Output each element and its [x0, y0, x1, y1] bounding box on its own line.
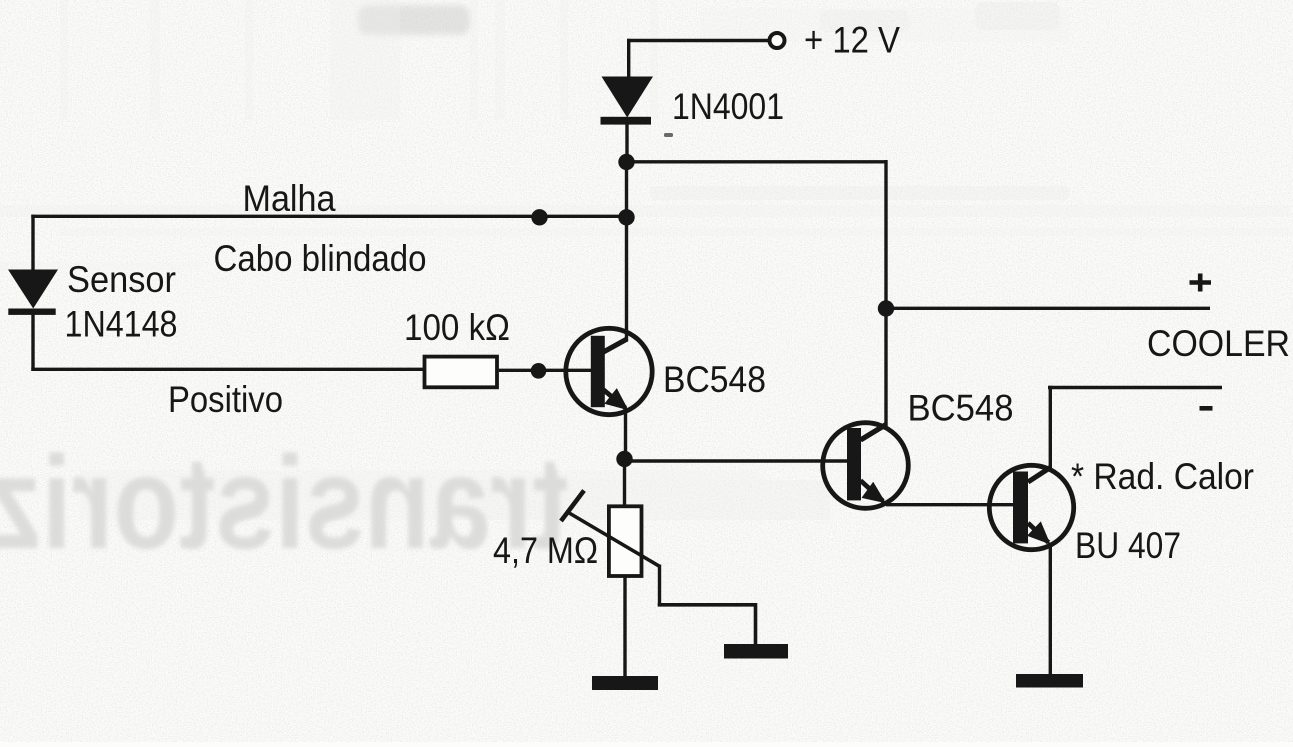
wire node A to shield node	[625, 162, 628, 217]
wire sensor anode (left drop)	[31, 215, 34, 271]
svg-text:1N4148: 1N4148	[65, 304, 178, 345]
svg-text:transistoriza: transistoriza	[0, 429, 568, 576]
trimpot P1 4,7M body	[609, 506, 642, 576]
svg-text:Positivo: Positivo	[168, 379, 283, 420]
svg-text:1N4001: 1N4001	[672, 86, 784, 127]
resistor R1 100k	[425, 357, 498, 388]
transistor Q2 BC548	[823, 423, 909, 509]
svg-text:COOLER: COOLER	[1147, 323, 1290, 364]
ground (Q3 emitter)	[1016, 674, 1083, 688]
svg-text:4,7 MΩ: 4,7 MΩ	[493, 530, 598, 571]
node B junction dot	[878, 300, 894, 316]
junction dot base Q1	[531, 363, 547, 379]
svg-text:BC548: BC548	[663, 359, 766, 400]
svg-text:+ 12 V: + 12 V	[804, 20, 900, 61]
diode D2 sensor 1N4148	[8, 270, 58, 315]
wire sensor cathode to positivo wire	[31, 315, 34, 372]
diode D1 1N4001	[601, 77, 654, 125]
trimpot wiper arrow	[561, 491, 660, 567]
label + (cooler positive)	[1190, 274, 1212, 292]
label - (cooler negative)	[1200, 406, 1213, 411]
wire Q3 emitter to ground	[1049, 545, 1052, 675]
wire positivo (center conductor)	[31, 368, 423, 371]
wire shield node down to Q1 collector	[625, 217, 628, 342]
ground (trimpot)	[592, 676, 658, 690]
wire Q1 emitter to node C	[624, 410, 627, 459]
wire D1 cathode to node A	[625, 124, 628, 162]
wire right rail down to node B	[884, 160, 887, 308]
transistor Q1 BC548	[566, 328, 652, 414]
wire malha (shield)	[31, 215, 626, 218]
svg-text:Sensor: Sensor	[67, 259, 176, 300]
svg-text:BC548: BC548	[908, 388, 1014, 429]
wire R1 to base node	[499, 369, 591, 372]
svg-text:100 kΩ: 100 kΩ	[404, 307, 510, 348]
+12V terminal	[770, 33, 785, 48]
wire Q2 emitter to Q3 base	[886, 503, 1014, 506]
svg-text:* Rad. Calor: * Rad. Calor	[1071, 456, 1254, 497]
transistor Q3 BU407	[989, 465, 1073, 549]
wire node A to right rail	[627, 160, 887, 163]
svg-text:Cabo blindado: Cabo blindado	[214, 238, 427, 279]
wire node C to Q2 base	[625, 459, 848, 462]
wire node B down to Q2 collector	[884, 308, 887, 426]
ground (wiper)	[724, 644, 788, 659]
junction dot shield right	[618, 209, 634, 225]
wire node C to trimpot	[623, 459, 626, 505]
svg-text:Malha: Malha	[243, 178, 336, 219]
wire +12V to diode D1	[627, 39, 770, 42]
wire trimpot wiper to ground	[658, 565, 756, 646]
junction dot shield left	[531, 209, 547, 225]
wire cooler - output	[1048, 386, 1222, 389]
node A junction dot	[618, 154, 634, 170]
wire node B to cooler + output	[886, 307, 1210, 310]
svg-text:BU 407: BU 407	[1075, 525, 1181, 566]
wire trimpot bottom to ground	[623, 576, 626, 677]
node C junction dot	[616, 451, 632, 467]
